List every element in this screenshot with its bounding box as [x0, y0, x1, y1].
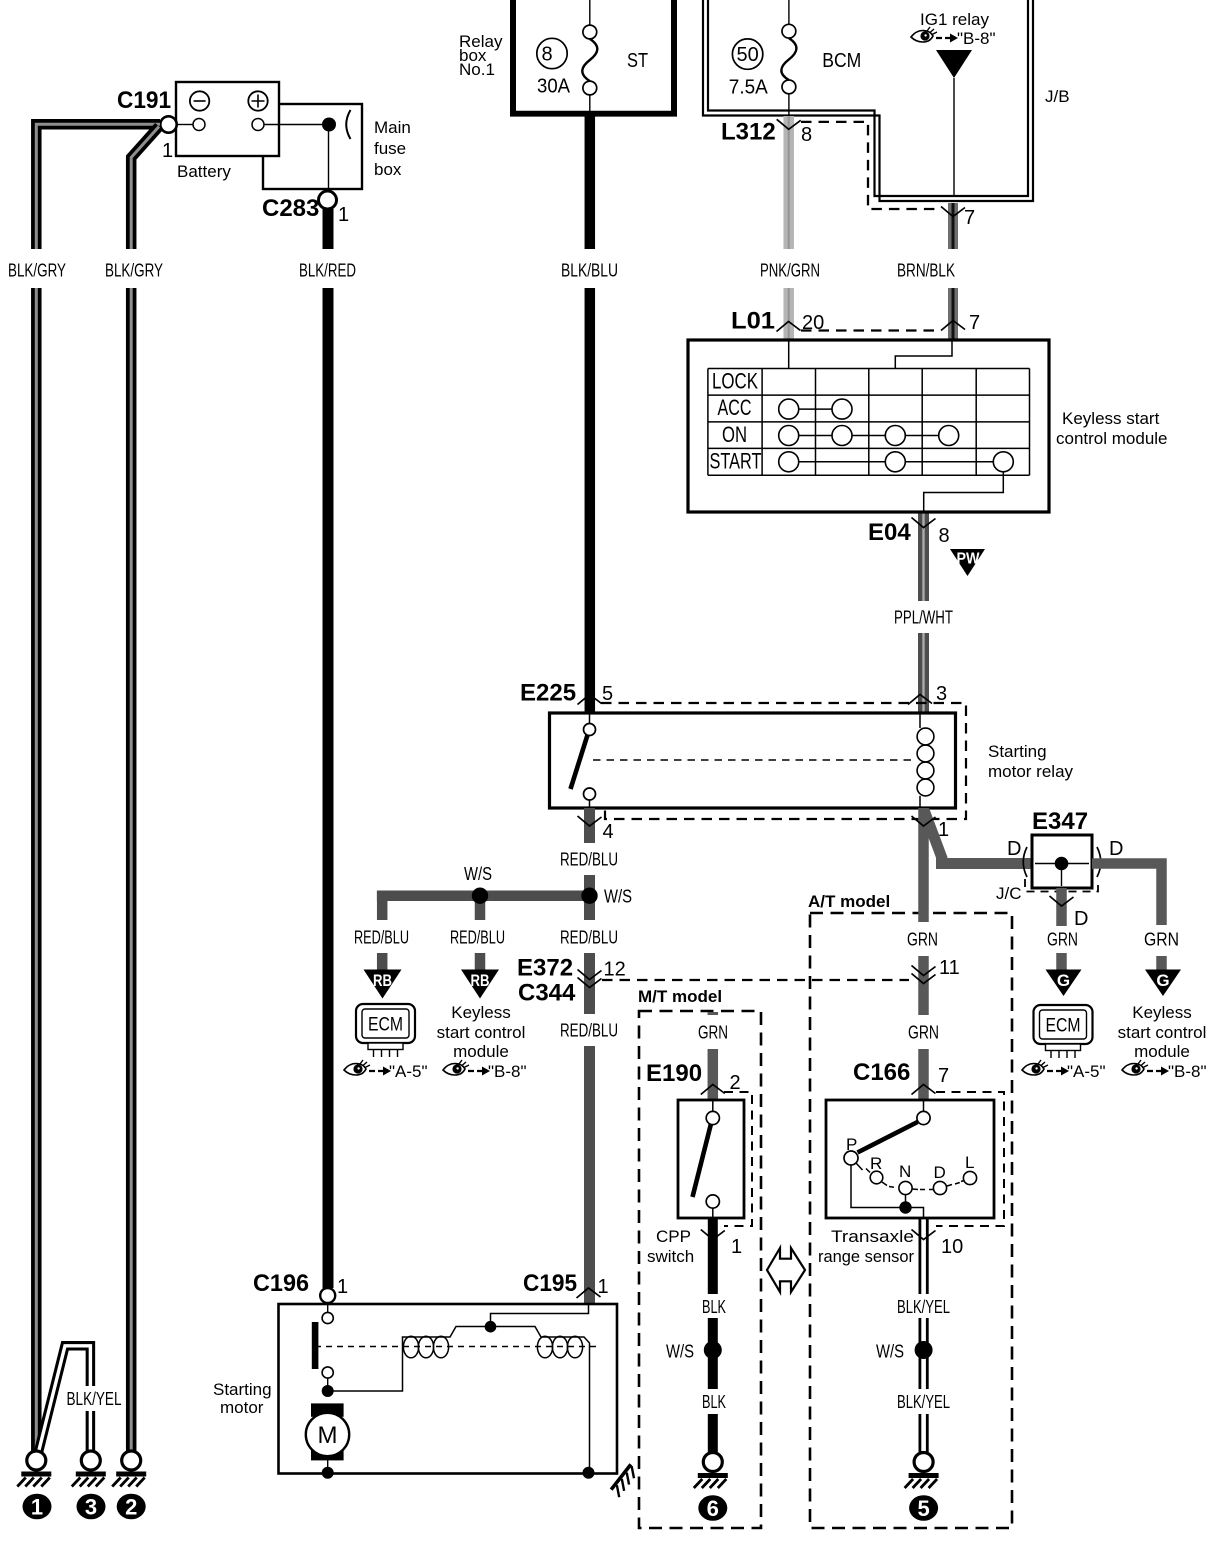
C166 pin 10: [912, 1230, 964, 1259]
svg-text:30A: 30A: [537, 76, 571, 98]
svg-text:PW: PW: [957, 551, 981, 568]
svg-text:G: G: [1156, 971, 1169, 990]
wire BRN/BLK from JB to L01 pin 7: [897, 203, 955, 339]
svg-text:Starting: Starting: [213, 1380, 272, 1399]
svg-text:L01: L01: [731, 308, 775, 335]
wire BLK/RED from C283 to C196: [299, 208, 356, 1288]
svg-text:"B-8": "B-8": [1168, 1062, 1207, 1081]
svg-text:E347: E347: [1032, 808, 1088, 835]
svg-text:IG1 relay: IG1 relay: [920, 10, 989, 29]
PW power triangle: [950, 549, 985, 576]
svg-text:A/T model: A/T model: [808, 892, 890, 911]
relay box No.1 outline: [459, 0, 677, 114]
battery B1: [176, 82, 279, 181]
wire BLK/GRY 2 from C191 to ground 2: [105, 127, 163, 1452]
svg-text:CPP: CPP: [656, 1227, 691, 1246]
svg-text:W/S: W/S: [464, 864, 492, 884]
svg-text:N: N: [899, 1162, 911, 1181]
svg-text:G: G: [1057, 971, 1070, 990]
RB triangle middle: [461, 970, 499, 999]
svg-text:5: 5: [602, 683, 613, 705]
M/T model dashed box: [638, 987, 761, 1528]
keyless start control module text middle: [437, 1003, 526, 1061]
transaxle range sensor box C166: [818, 1100, 994, 1266]
svg-text:E190: E190: [646, 1060, 702, 1087]
svg-text:E372: E372: [517, 955, 573, 982]
svg-text:C166: C166: [853, 1059, 910, 1086]
G triangle right: [1145, 970, 1181, 997]
wire GRN right branch to keyless G triangle: [1092, 864, 1179, 971]
svg-text:Keyless: Keyless: [1132, 1003, 1192, 1022]
svg-text:GRN: GRN: [907, 930, 938, 950]
relay switch contacts: [571, 714, 596, 807]
svg-text:1: 1: [31, 1495, 43, 1520]
connector L312 pin 8: [721, 119, 812, 147]
svg-text:6: 6: [707, 1496, 719, 1521]
connector E225 labels pins 5 and 3: [520, 680, 947, 707]
wire BLK/YEL loop grounds 1 and 3: [39, 1346, 122, 1452]
svg-text:12: 12: [604, 959, 626, 981]
svg-text:2: 2: [730, 1072, 741, 1094]
connector L01 pins 20 and 7: [731, 308, 980, 335]
fuse 50 7.5A BCM: [729, 0, 862, 129]
svg-text:BLK: BLK: [702, 1392, 726, 1412]
wire RED/BLU middle branch to keyless module: [450, 900, 505, 970]
svg-text:start control: start control: [1118, 1023, 1207, 1042]
starting motor relay box: [550, 713, 1074, 808]
svg-text:1: 1: [162, 140, 173, 162]
connector C166 pin 7: [853, 1059, 949, 1095]
svg-text:motor: motor: [220, 1398, 264, 1417]
CPP switch box E190: [647, 1100, 744, 1266]
svg-text:W/S: W/S: [604, 887, 632, 907]
svg-text:1: 1: [938, 819, 949, 841]
wire RED/BLU from E225 pin 4: [560, 808, 618, 896]
keyless start control module text right: [1118, 1003, 1207, 1061]
svg-text:box: box: [374, 160, 402, 179]
svg-text:PPL/WHT: PPL/WHT: [894, 608, 953, 628]
svg-text:3: 3: [85, 1495, 97, 1520]
svg-text:M: M: [318, 1422, 338, 1449]
svg-text:BLK/YEL: BLK/YEL: [897, 1297, 950, 1317]
svg-text:RB: RB: [471, 971, 490, 990]
IG1 relay reference: [911, 10, 996, 48]
table contact circles row ON: [779, 426, 959, 446]
ground 5: [905, 1453, 939, 1522]
ground 3: [72, 1451, 106, 1520]
E225 pin 4: [578, 816, 614, 843]
svg-text:GRN: GRN: [908, 1023, 939, 1043]
E190 dashed connector outline: [724, 1092, 752, 1226]
svg-text:switch: switch: [647, 1247, 694, 1266]
svg-text:RED/BLU: RED/BLU: [450, 928, 505, 948]
svg-text:No.1: No.1: [459, 60, 495, 79]
motor solenoid contact: [312, 1304, 334, 1386]
svg-text:1: 1: [598, 1276, 609, 1298]
svg-text:4: 4: [603, 821, 614, 843]
connector pin 11: [912, 957, 960, 984]
svg-text:M/T model: M/T model: [638, 987, 722, 1006]
svg-text:BLK: BLK: [702, 1297, 726, 1317]
wire BLK/YEL from C166 to ground 5: [897, 1218, 950, 1452]
IG1 feed triangle: [936, 50, 972, 78]
internal wire from START to E04: [924, 472, 1004, 511]
wire GRN below E347 to G triangle: [1047, 888, 1078, 970]
connector E372 C344 pin 12: [517, 955, 626, 1007]
connector E190 pin 2: [646, 1060, 741, 1095]
svg-text:motor relay: motor relay: [988, 762, 1074, 781]
svg-text:GRN: GRN: [698, 1023, 728, 1043]
svg-text:2: 2: [125, 1495, 137, 1520]
svg-text:START: START: [710, 448, 762, 473]
svg-text:50: 50: [736, 44, 758, 66]
svg-text:BLK/BLU: BLK/BLU: [561, 261, 618, 281]
svg-text:11: 11: [939, 957, 960, 979]
svg-text:RB: RB: [373, 971, 392, 990]
svg-text:Battery: Battery: [177, 162, 231, 181]
E225 dashed connector outline: [601, 703, 966, 819]
svg-text:ACC: ACC: [718, 395, 752, 420]
svg-text:7.5A: 7.5A: [729, 77, 769, 99]
svg-text:C283: C283: [262, 195, 319, 222]
C166 dashed connector outline: [936, 1092, 1004, 1226]
svg-text:R: R: [870, 1154, 882, 1173]
svg-text:BLK/GRY: BLK/GRY: [8, 261, 66, 281]
svg-text:E04: E04: [868, 519, 911, 546]
motor M: [306, 1403, 349, 1472]
svg-text:Keyless: Keyless: [451, 1003, 511, 1022]
splice W/S A/T: [876, 1341, 933, 1362]
svg-text:D: D: [1007, 838, 1021, 860]
motor internal dashed line: [315, 1346, 599, 1348]
wire from triangle to JB bottom: [953, 78, 955, 196]
junction dot in fuse box: [322, 118, 336, 132]
internal wire from pin 20 to table: [788, 341, 790, 369]
svg-text:W/S: W/S: [666, 1342, 694, 1362]
svg-text:BLK/RED: BLK/RED: [299, 261, 356, 281]
svg-text:"A-5": "A-5": [389, 1062, 428, 1081]
wire RED/BLU continues down to C195: [560, 900, 618, 1304]
svg-text:"A-5": "A-5": [1067, 1062, 1106, 1081]
svg-text:D: D: [1074, 908, 1088, 930]
svg-text:Transaxle: Transaxle: [831, 1227, 914, 1246]
svg-text:"B-8": "B-8": [488, 1062, 527, 1081]
svg-text:D: D: [1109, 838, 1123, 860]
wire C195 to coil junction: [491, 1304, 589, 1321]
svg-text:GRN: GRN: [1047, 930, 1078, 950]
relay internal dashed link: [593, 759, 911, 761]
svg-text:W/S: W/S: [876, 1342, 904, 1362]
ECM module right: [1034, 1005, 1093, 1058]
eye reference A-5 right: [1022, 1060, 1106, 1081]
svg-text:1: 1: [337, 1276, 348, 1298]
solenoid junction dot: [322, 1385, 334, 1397]
splice dot W/S right: [581, 887, 632, 907]
svg-text:3: 3: [936, 683, 947, 705]
motor ground dots on case: [322, 1467, 334, 1479]
J/B double-line box: [703, 0, 1070, 201]
svg-text:7: 7: [938, 1065, 949, 1087]
svg-text:8: 8: [541, 44, 552, 66]
svg-text:8: 8: [801, 124, 812, 146]
svg-text:BLK/YEL: BLK/YEL: [67, 1389, 122, 1409]
G triangle left: [1046, 970, 1082, 997]
svg-text:8: 8: [939, 525, 950, 547]
svg-text:ECM: ECM: [1046, 1016, 1081, 1037]
svg-text:5: 5: [917, 1496, 929, 1521]
junction connector E347: [996, 808, 1123, 930]
ECM module left: [356, 1004, 415, 1057]
E225 pin 1: [912, 816, 950, 841]
L312 dashed connector outline: [801, 122, 939, 209]
coil junction dot: [485, 1321, 497, 1333]
wire W/S splice horizontal: [377, 890, 595, 901]
splice W/S M/T: [666, 1341, 722, 1362]
svg-text:BLK/GRY: BLK/GRY: [105, 261, 163, 281]
wire GRN to E190: [698, 1012, 728, 1100]
svg-text:D: D: [934, 1163, 946, 1182]
connector C191: [117, 87, 177, 162]
L312 pin 7 at JB exit: [941, 207, 975, 230]
svg-text:fuse: fuse: [374, 139, 406, 158]
svg-text:L: L: [965, 1153, 974, 1172]
ground 1: [17, 1451, 51, 1520]
connector E04 pin 8: [868, 518, 950, 548]
coil windings left: [403, 1336, 448, 1358]
svg-text:10: 10: [941, 1236, 963, 1258]
svg-text:Keyless start: Keyless start: [1062, 409, 1160, 428]
wire BLK from E190 to ground 6: [702, 1218, 726, 1452]
svg-text:LOCK: LOCK: [712, 369, 758, 394]
svg-text:7: 7: [964, 207, 975, 229]
keyless start control module box: [688, 340, 1168, 512]
eye reference B-8 right: [1122, 1060, 1207, 1081]
RB triangle left: [364, 970, 402, 999]
internal wire from pin 7 to table: [895, 341, 952, 369]
relay coil: [917, 714, 934, 807]
wire RED/BLU left branch to ECM: [354, 891, 409, 971]
wire PNK/GRN from fuse 50 to L01 pin 20: [760, 116, 820, 339]
svg-text:control module: control module: [1056, 429, 1168, 448]
svg-text:BRN/BLK: BRN/BLK: [897, 261, 955, 281]
svg-text:J/C: J/C: [996, 884, 1022, 903]
chassis ground at motor case: [609, 1463, 639, 1497]
svg-text:RED/BLU: RED/BLU: [354, 928, 409, 948]
A/T model dashed box: [808, 892, 1012, 1528]
connector C196: [253, 1270, 348, 1303]
svg-text:GRN: GRN: [1144, 930, 1179, 950]
svg-text:1: 1: [338, 204, 349, 226]
svg-text:"B-8": "B-8": [957, 29, 996, 48]
svg-text:BCM: BCM: [822, 50, 861, 72]
wire dot to coils: [328, 1327, 590, 1473]
starting motor box: [213, 1304, 617, 1474]
wire BLK/BLU from relay box to E225 pin 5: [561, 116, 618, 713]
wire PPL/WHT from E04 to E225 pin 3: [894, 512, 953, 713]
svg-text:C196: C196: [253, 1270, 309, 1297]
connector C195: [523, 1270, 609, 1298]
E347 bottom pin chevron: [1050, 896, 1074, 906]
svg-text:C344: C344: [518, 980, 576, 1007]
svg-text:RED/BLU: RED/BLU: [560, 1021, 618, 1041]
coil windings right: [537, 1336, 582, 1358]
svg-text:1: 1: [731, 1236, 742, 1258]
svg-text:RED/BLU: RED/BLU: [560, 850, 618, 870]
svg-text:ST: ST: [627, 50, 648, 72]
svg-text:7: 7: [969, 312, 980, 334]
svg-text:RED/BLU: RED/BLU: [560, 928, 618, 948]
main fuse box: [263, 104, 411, 189]
table contact circles row START: [779, 452, 1014, 472]
svg-text:Starting: Starting: [988, 742, 1047, 761]
svg-text:ON: ON: [722, 422, 747, 447]
splice dot W/S left: [464, 864, 492, 904]
svg-text:J/B: J/B: [1045, 87, 1070, 106]
svg-text:Main: Main: [374, 118, 411, 137]
svg-text:BLK/YEL: BLK/YEL: [897, 1392, 950, 1412]
eye reference A-5 left: [344, 1060, 428, 1081]
wire GRN from E225 pin 1 down to C166: [907, 808, 939, 1100]
svg-text:module: module: [1134, 1042, 1190, 1061]
svg-text:L312: L312: [721, 119, 776, 146]
ground 2: [112, 1451, 146, 1520]
eye reference B-8 middle: [443, 1060, 527, 1081]
svg-text:range sensor: range sensor: [818, 1247, 914, 1266]
connector C283: [262, 191, 349, 226]
ground 6: [694, 1453, 728, 1522]
fusible link symbol: [346, 110, 350, 139]
wire BLK/GRY 1 from C191 to ground 1: [8, 124, 160, 1451]
table contact circles row ACC: [779, 399, 852, 419]
svg-text:E225: E225: [520, 680, 576, 707]
svg-text:C195: C195: [523, 1270, 577, 1297]
dashed connector line pin 12 to pin 11: [602, 979, 909, 981]
svg-text:PNK/GRN: PNK/GRN: [760, 261, 820, 281]
svg-text:ECM: ECM: [368, 1015, 403, 1036]
wire GRN branch to E347: [924, 810, 1032, 864]
MT AT equivalence arrow: [767, 1248, 805, 1292]
fuse 8 30A ST: [537, 0, 648, 111]
svg-text:C191: C191: [117, 87, 171, 114]
E190 pin 1: [701, 1230, 742, 1259]
ignition switch table: [708, 369, 1030, 476]
svg-text:module: module: [453, 1042, 509, 1061]
wire from dot to C283: [328, 125, 330, 192]
svg-text:start control: start control: [437, 1023, 526, 1042]
battery pin stub circles and links: [177, 119, 330, 131]
